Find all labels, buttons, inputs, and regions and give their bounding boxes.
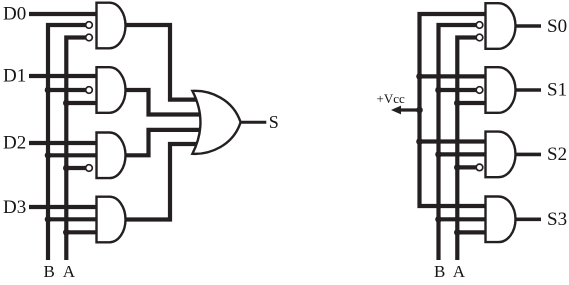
wire A to U7 bottom (457, 165, 477, 169)
svg-text:D2: D2 (3, 133, 26, 154)
wire B to U3 middle (48, 153, 101, 157)
AND gate U4 (D3) (97, 197, 126, 243)
svg-text:B: B (434, 262, 445, 281)
wire B to U6 middle (439, 88, 478, 92)
junction B-U4 (45, 216, 52, 223)
junction B-U7 (435, 151, 442, 158)
bubble U6 input B (476, 22, 483, 29)
wire B to U4 middle (48, 217, 101, 221)
svg-text:A: A (63, 262, 76, 281)
junction B-U2 (45, 87, 52, 94)
AND gate U8 (S2) (486, 132, 516, 178)
AND gate U7 (S1) (486, 67, 516, 113)
wire A to U4 bottom (66, 230, 101, 234)
svg-text:B: B (44, 262, 55, 281)
svg-text:S3: S3 (547, 209, 567, 230)
junction A-U8 (454, 229, 461, 236)
wire S2 output (513, 153, 541, 157)
wire select A vertical (right) (457, 38, 477, 261)
wire D1 input (29, 74, 101, 78)
wire select A vertical (left) (66, 38, 89, 261)
wire U4 output to OR input 4 (124, 144, 205, 220)
junction A-U7 (454, 164, 461, 171)
AND gate U6 (S0) (486, 3, 516, 49)
svg-text:S1: S1 (547, 80, 567, 101)
wire select B vertical (right) (439, 25, 478, 260)
wire A to U3 bottom (66, 166, 86, 170)
svg-text:S: S (269, 112, 279, 132)
wire S1 output (513, 88, 541, 92)
junction Vcc-arrow (416, 107, 423, 114)
svg-text:+Vcc: +Vcc (377, 91, 405, 106)
AND gate U3 (D2) (97, 133, 126, 179)
bubble U7 input B (476, 87, 483, 94)
junction B-U3 (45, 152, 52, 159)
AND gate U2 (D1) (97, 67, 126, 113)
wire D0 input (29, 12, 101, 16)
wire S0 output (513, 24, 541, 28)
wire B to U8 middle (439, 217, 490, 221)
bubble U1 input A (86, 34, 93, 41)
svg-text:D3: D3 (3, 197, 26, 218)
wire Vcc to U6 top (420, 74, 490, 78)
bubble U3 input A (86, 165, 93, 172)
svg-text:S0: S0 (547, 16, 567, 37)
junction B-U6 (435, 87, 442, 94)
OR gate U5 (192, 91, 240, 154)
junction Vcc-U6 (416, 73, 423, 80)
bubble U8 input A (476, 164, 483, 171)
junction A-U6 (454, 100, 461, 107)
bubble U2 input B (86, 87, 93, 94)
svg-text:D0: D0 (3, 4, 26, 25)
wire S3 output (513, 218, 541, 222)
wire D2 input (29, 141, 101, 145)
wire A to U8 bottom (457, 230, 489, 234)
junction A-U3 (63, 165, 70, 172)
wire B to U2 middle (48, 88, 86, 92)
wire U3 output to OR input 3 (124, 130, 205, 155)
svg-text:A: A (453, 262, 466, 281)
AND gate U9 (S3) (486, 197, 516, 243)
wire Vcc vertical (right) (420, 14, 490, 206)
junction Vcc-U7 (416, 138, 423, 145)
junction A-U4 (63, 229, 70, 236)
svg-text:D1: D1 (3, 66, 26, 87)
junction A-U2 (63, 100, 70, 107)
wire Vcc to U7 top (420, 139, 490, 143)
bubble U1 input B (86, 22, 93, 29)
wire +Vcc arrow line (398, 108, 420, 111)
wire A to U2 bottom (66, 101, 101, 105)
bubble U6 input A (476, 34, 483, 41)
AND gate U1 (D0) (97, 3, 126, 49)
wire B to U7 middle (439, 152, 490, 156)
wire OR output S (238, 121, 266, 124)
junction B-U8 (435, 216, 442, 223)
wire select B vertical (left) (48, 25, 89, 260)
wire U1 output to OR input 1 (124, 25, 205, 100)
wire D3 input (29, 205, 101, 209)
wire A to U6 bottom (457, 101, 489, 105)
svg-text:S2: S2 (547, 144, 567, 165)
+Vcc arrowhead (391, 106, 401, 115)
wire U2 output to OR input 2 (124, 90, 205, 115)
